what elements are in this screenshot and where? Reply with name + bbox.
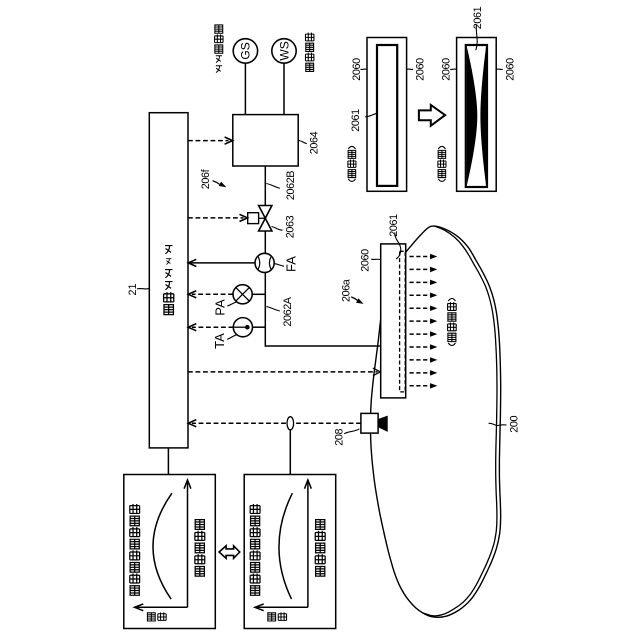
svg-text:2064: 2064 bbox=[308, 131, 320, 154]
svg-text:208: 208 bbox=[334, 429, 346, 446]
svg-text:GS: GS bbox=[239, 42, 253, 59]
svg-text:2061: 2061 bbox=[350, 109, 362, 132]
svg-text:PA: PA bbox=[213, 299, 228, 316]
svg-text:WS: WS bbox=[277, 41, 291, 60]
svg-text:2061: 2061 bbox=[472, 6, 484, 29]
svg-text:2063: 2063 bbox=[284, 215, 296, 238]
svg-text:206a: 206a bbox=[341, 279, 353, 302]
svg-text:TA: TA bbox=[212, 333, 227, 349]
svg-text:2060: 2060 bbox=[414, 58, 426, 81]
svg-text:2062B: 2062B bbox=[285, 171, 297, 200]
svg-text:21: 21 bbox=[127, 283, 139, 295]
svg-text:200: 200 bbox=[509, 416, 521, 433]
svg-text:2060: 2060 bbox=[504, 58, 516, 81]
svg-text:206f: 206f bbox=[200, 168, 212, 189]
svg-text:2062A: 2062A bbox=[282, 296, 294, 326]
svg-text:2061: 2061 bbox=[388, 214, 400, 237]
svg-text:FA: FA bbox=[284, 256, 299, 272]
svg-text:2060: 2060 bbox=[359, 249, 371, 272]
